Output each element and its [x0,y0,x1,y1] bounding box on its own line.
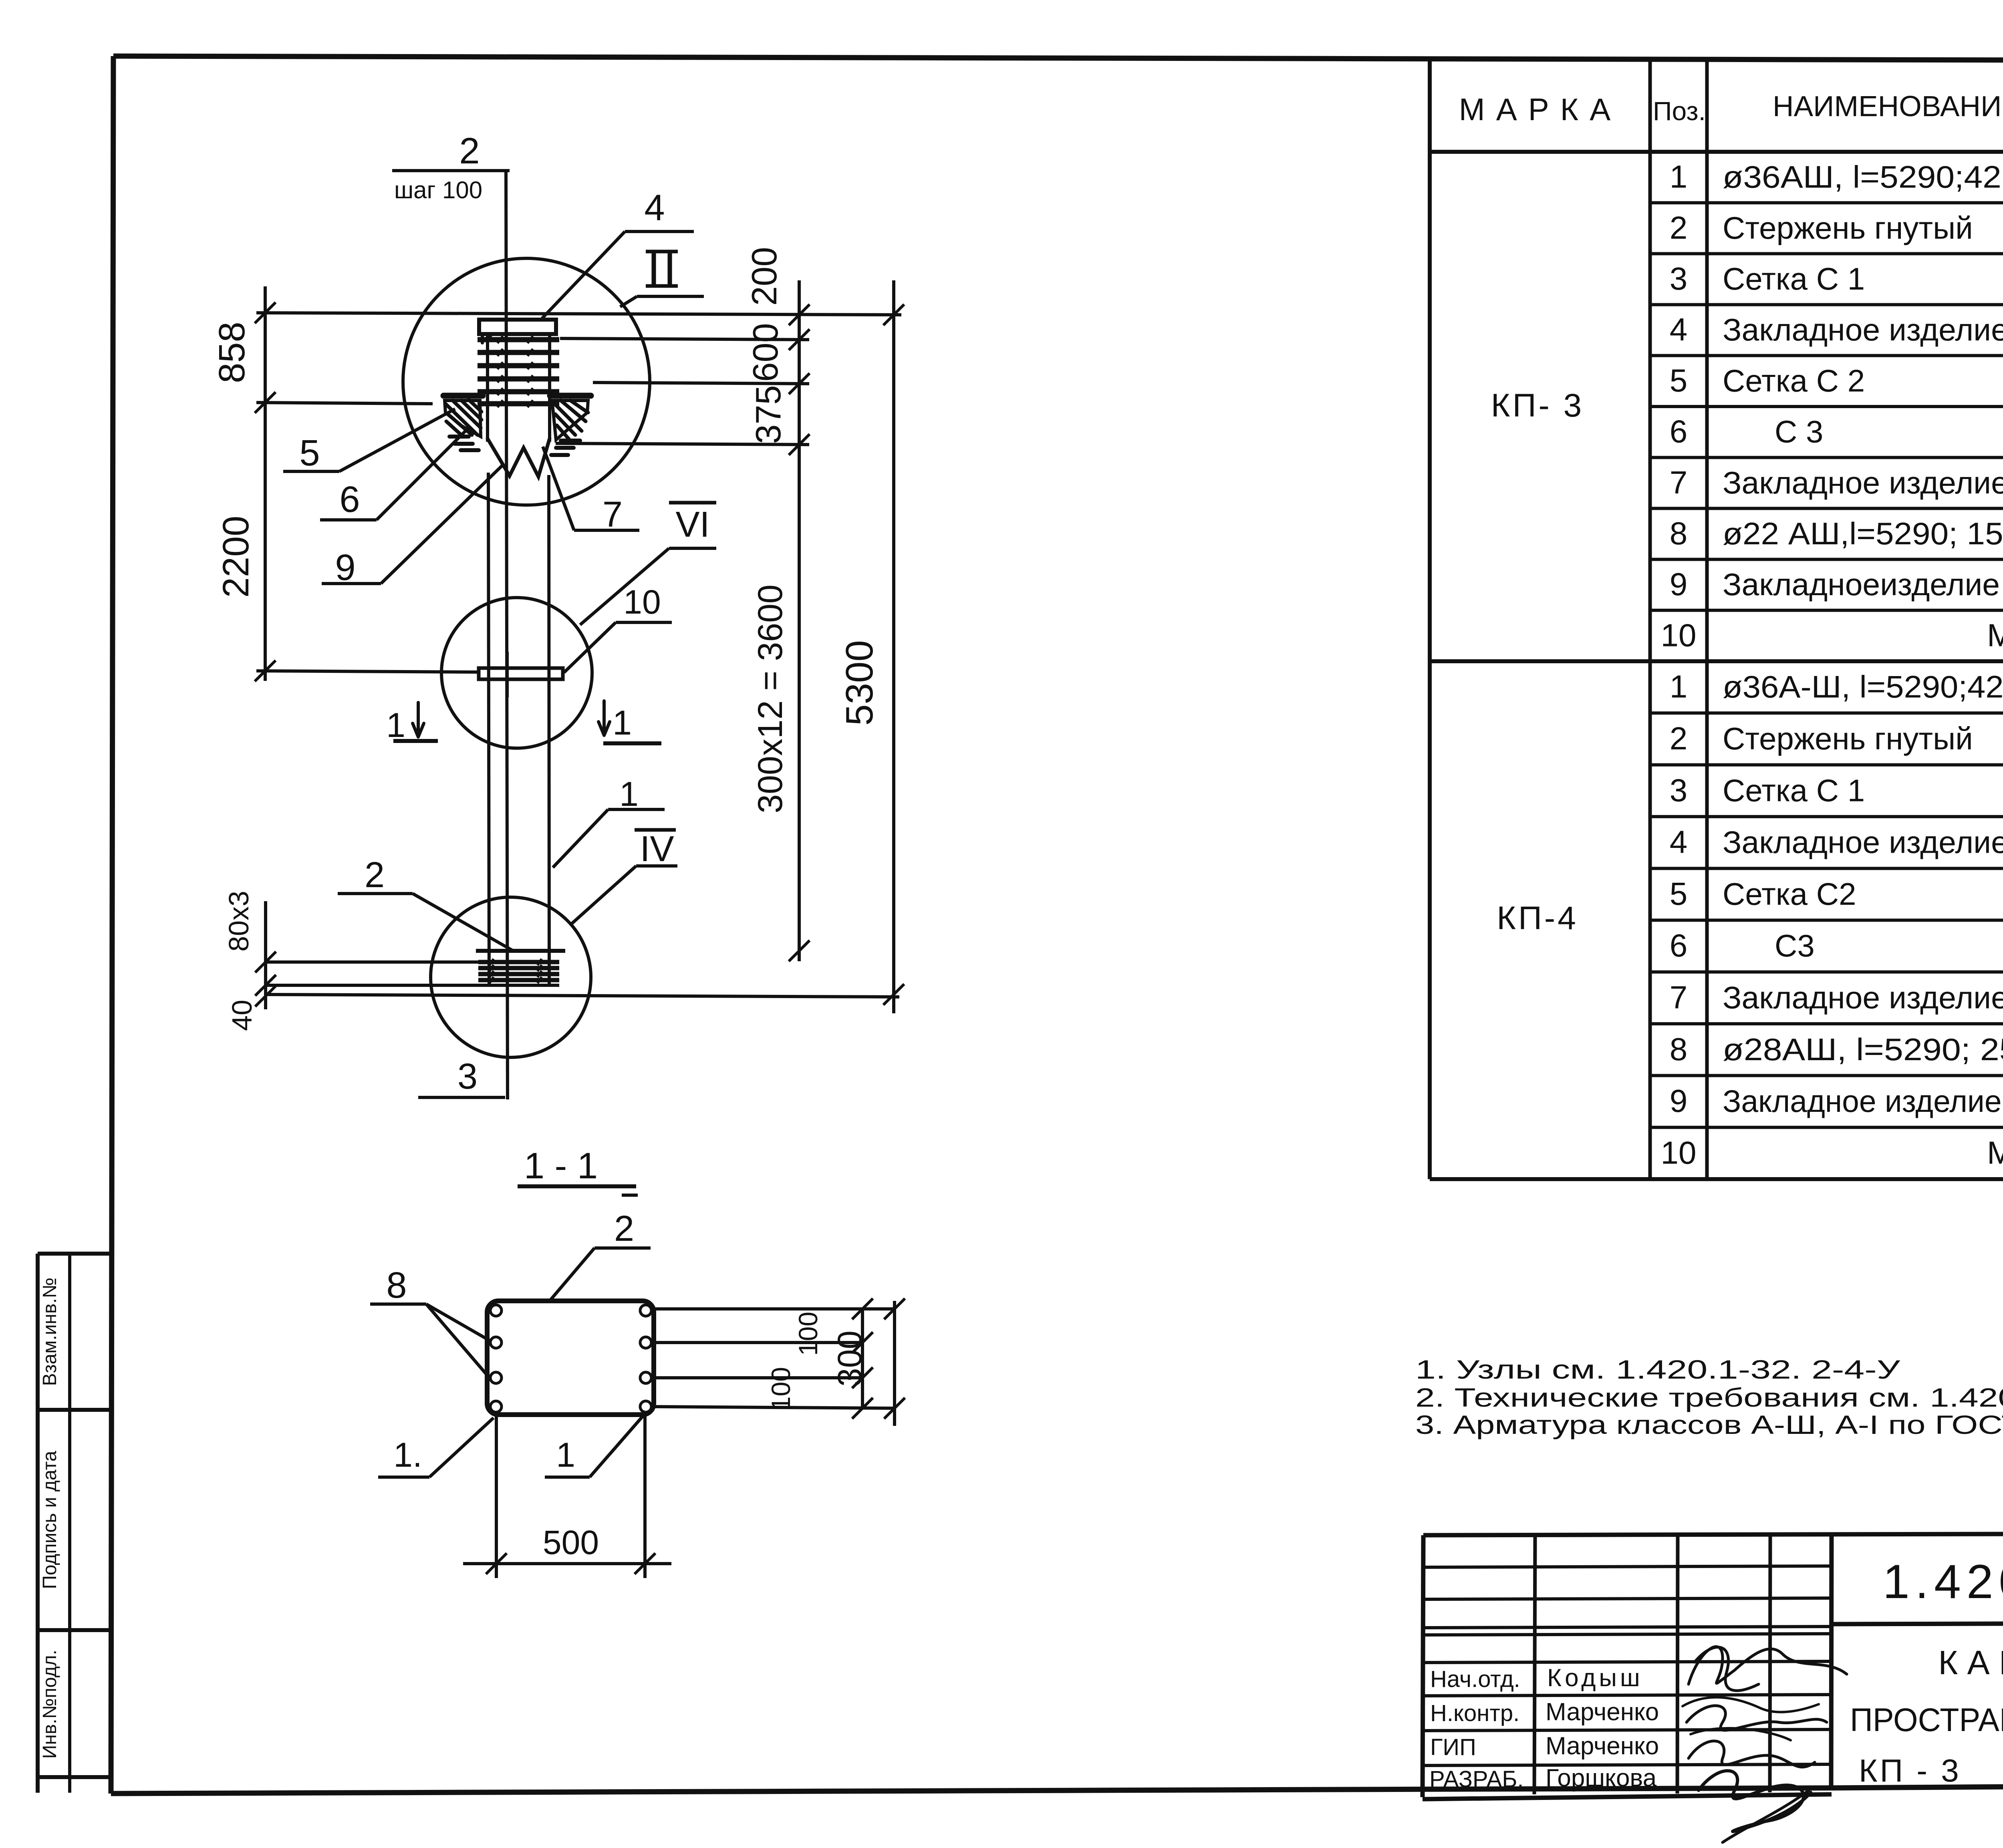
svg-text:2200: 2200 [216,516,256,598]
KP-3 row 6 divider line [1650,456,2003,459]
reference II underline [637,295,704,298]
KP-4 row 4 divider line [1650,867,2003,870]
dim line 100/100 vertical [861,1309,864,1408]
dim line 500 horizontal [463,1562,671,1565]
svg-text:300: 300 [831,1331,869,1387]
reference VI leader [580,548,669,625]
svg-text:10: 10 [1661,1135,1697,1170]
svg-text:Поз.: Поз. [1653,96,1706,126]
parts table header row line [1430,150,2003,154]
svg-text:10: 10 [1661,617,1697,653]
KP-4 row 8 divider line [1650,1074,2003,1077]
svg-text:858: 858 [212,322,252,383]
svg-text:40: 40 [226,1000,258,1031]
svg-text:4: 4 [644,187,665,228]
svg-text:7: 7 [1670,979,1688,1015]
svg-text:Н.контр.: Н.контр. [1430,1700,1519,1726]
svg-text:VI: VI [675,505,709,545]
svg-text:9: 9 [335,547,355,588]
svg-text:3: 3 [1670,261,1688,296]
KP-3 row 5 divider line [1650,405,2003,408]
svg-text:300х12 = 3600: 300х12 = 3600 [751,584,790,813]
svg-text:6: 6 [339,479,360,520]
svg-text:4: 4 [1670,824,1688,860]
svg-text:Взам.инв.№: Взам.инв.№ [39,1278,60,1386]
svg-text:3. Арматура классов А-Ш, А-I: 3. Арматура классов А-Ш, А-I по ГОСТ 578… [1415,1410,2003,1439]
svg-text:10: 10 [623,583,661,621]
svg-text:1: 1 [1670,669,1688,705]
svg-text:Стержень гнутый: Стержень гнутый [1723,721,1973,756]
sheet frame left border [111,56,113,1794]
svg-text:1: 1 [619,775,639,813]
rebar circles left side [490,1305,502,1412]
svg-text:2: 2 [1670,210,1688,246]
svg-text:ø36АШ, l=5290;42,35кг: ø36АШ, l=5290;42,35кг [1723,159,2003,195]
top plate left hook [482,334,490,343]
5300 ticks [883,304,904,325]
svg-text:600: 600 [746,323,785,382]
svg-text:шаг 100: шаг 100 [394,177,482,203]
svg-text:ø22 АШ,l=5290; 15,82кг: ø22 АШ,l=5290; 15,82кг [1723,516,2003,551]
svg-text:ПРОСТРАНСТВЕННЫЙ: ПРОСТРАНСТВЕННЫЙ [1850,1701,2003,1738]
svg-text:1 - 1: 1 - 1 [524,1145,598,1186]
parts table outer verticals [1430,60,2003,1179]
column top plate (закладное изделие) [479,320,556,334]
svg-text:Закладное изделиеМН1: Закладное изделиеМН1 [1723,825,2003,860]
svg-text:Сетка С 1: Сетка С 1 [1723,773,1865,808]
svg-text:С3: С3 [1723,928,1815,963]
title block left edge [1423,1535,1423,1797]
svg-text:КП - 3 , КП - 4: КП - 3 , КП - 4 [1859,1753,2003,1788]
KP-3 row 2 divider line [1650,252,2003,255]
svg-text:РАЗРАБ.: РАЗРАБ. [1429,1766,1524,1792]
sheet frame top border [113,56,2003,61]
column axis centerline [506,171,508,1099]
KP-3 row 3 divider line [1650,303,2003,306]
svg-text:К А Р К А С: К А Р К А С [1938,1644,2003,1681]
svg-text:Нач.отд.: Нач.отд. [1430,1666,1520,1692]
svg-text:3: 3 [1670,772,1688,808]
column trunk left edge upper [486,334,489,442]
weld mesh scribble left (pos.5) [443,393,483,399]
svg-text:1.420.1-32 .: 1.420.1-32 . [1883,1555,2003,1608]
svg-text:2. Технические требования см.: 2. Технические требования см. 1.420.1-32… [1415,1383,2003,1412]
svg-text:100: 100 [793,1312,823,1356]
svg-text:Горшкова: Горшкова [1546,1764,1657,1792]
svg-text:8: 8 [386,1265,407,1306]
svg-text:5: 5 [1670,876,1688,912]
column trunk left edge middle [488,473,489,985]
svg-text:Сетка С 2: Сетка С 2 [1723,363,1865,398]
svg-text:1: 1 [386,706,405,745]
extension line right level 600-top [560,338,809,340]
column trunk right edge middle [549,475,549,985]
signature squiggle 4 (разраб, long tail) [1699,1771,1811,1832]
svg-text:НАИМЕНОВАНИЕ: НАИМЕНОВАНИЕ [1773,91,2003,123]
svg-text:5: 5 [1670,362,1688,398]
weld mesh scribble right (pos.6) [550,393,591,399]
svg-text:6: 6 [1670,414,1688,449]
KP-3 row 4 divider line [1650,354,2003,357]
svg-text:Сетка С 1: Сетка С 1 [1723,261,1865,296]
svg-text:1. Узлы см. 1.420.1-32. 2-4-У: 1. Узлы см. 1.420.1-32. 2-4-У [1415,1355,1900,1384]
ticks 80x3 40 [255,952,276,972]
reference IV leader [571,866,636,924]
svg-text:1: 1 [556,1436,575,1474]
detail circle II [403,258,650,505]
detail circle IV bottom [431,897,591,1057]
reference IV roman with overline [635,828,676,832]
KP-3 row 7 divider line [1650,507,2003,510]
spiral coil lines below top plate [478,336,559,407]
right dim ticks [789,304,810,325]
title block bottom of approval table [1423,1794,1832,1799]
middle embed plate pos.10 [479,668,563,679]
extension line coil bottom left level [256,403,433,404]
svg-text:7: 7 [1670,465,1688,500]
svg-text:Кодыш: Кодыш [1547,1664,1643,1692]
svg-text:8: 8 [1670,1031,1688,1067]
svg-text:Закладное изделиеМН3: Закладное изделиеМН3 [1723,465,2003,500]
KP-4 row 3 divider line [1650,815,2003,818]
svg-text:КП- 3: КП- 3 [1491,387,1584,424]
KP-4 row 1 divider line [1650,711,2003,715]
svg-text:ГИП: ГИП [1430,1734,1476,1760]
svg-text:КП-4: КП-4 [1497,900,1578,936]
svg-text:375: 375 [748,385,788,444]
column trunk right edge upper [548,334,551,442]
KP-3 row 1 divider line [1650,201,2003,204]
signature squiggle 1 [1689,1647,1847,1684]
svg-text:2: 2 [459,131,480,171]
svg-text:МАРКА: МАРКА [1459,92,1622,127]
svg-text:МН6: МН6 [1987,1135,2003,1170]
svg-text:С 3: С 3 [1723,414,1823,449]
extension line right level 375-top [593,382,809,384]
svg-text:МН6: МН6 [1987,617,2003,653]
KP-4 row 6 divider line [1650,970,2003,974]
svg-text:3: 3 [457,1057,478,1097]
margin stamp box [38,1254,113,1793]
svg-text:5: 5 [299,433,320,473]
reference II leader to circle [620,296,637,307]
approval table row lines [1423,1566,1832,1765]
svg-text:ø28АШ, l=5290; 25,6кг: ø28АШ, l=5290; 25,6кг [1723,1032,2003,1067]
svg-text:Сетка С2: Сетка С2 [1723,876,1856,912]
svg-text:4: 4 [1670,312,1688,347]
detail reference II roman [646,252,678,286]
KP-4 row 9 divider line [1650,1126,2003,1129]
svg-text:2: 2 [365,855,385,895]
extension lines right of section [651,1307,895,1311]
parts table section divider KP-3/KP-4 [1430,659,2003,663]
svg-text:80х3: 80х3 [223,891,254,952]
document number cell line under 1.420.1-32 [1832,1622,2003,1624]
svg-text:Закладноеизделие МН4: Закладноеизделие МН4 [1723,567,2003,602]
svg-text:Закладное изделиеМН3: Закладное изделиеМН3 [1723,980,2003,1015]
KP-4 row 7 divider line [1650,1022,2003,1025]
extension line 2200 bottom to middle plate [256,671,479,672]
extension line 80x3 top [266,960,478,964]
rebar circles right side [640,1305,651,1412]
bottom anchor top line pos.2 target [476,949,565,953]
approval table verticals [1534,1534,1832,1794]
svg-text:9: 9 [1670,566,1688,602]
left dimension line vertical (858 / 2200) [264,286,267,681]
svg-text:IV: IV [640,829,674,869]
extension verticals for 500 dim [495,1415,498,1578]
title block outer top line [1423,1533,2003,1535]
svg-text:Стержень гнутый: Стержень гнутый [1723,210,1973,246]
KP-3 row 8 divider line [1650,558,2003,561]
bottom trunk end line [266,984,559,987]
extension line bottom 40 level [266,994,899,997]
reference VI roman with overline [669,501,716,505]
sheet frame bottom border [111,1788,1832,1794]
svg-text:100: 100 [766,1367,796,1411]
signature squiggle 3 [1689,1741,1815,1767]
svg-text:Закладное изделие МН4: Закладное изделие МН4 [1723,1083,2003,1119]
section mark 1 right [598,701,610,735]
svg-text:6: 6 [1670,928,1688,963]
svg-text:200: 200 [744,247,784,306]
svg-text:1: 1 [613,704,632,742]
dimension line 5300 vertical [892,280,895,1013]
svg-text:2: 2 [1670,721,1688,756]
axis continuation to label 3 [506,985,508,1097]
svg-text:9: 9 [1670,1083,1688,1119]
column break V zigzag [488,439,550,477]
KP-3 row 9 divider line [1650,609,2003,612]
extension line top plate level [256,313,901,315]
right dimension line vertical 200/600/375/3600 [798,280,801,961]
signature squiggle 2 [1687,1706,1827,1730]
section square column outline [487,1301,654,1415]
svg-text:Инв.№подл.: Инв.№подл. [39,1650,60,1759]
svg-text:Марченко: Марченко [1546,1732,1659,1760]
svg-text:Марченко: Марченко [1546,1698,1659,1726]
bottom anchor plate lines [478,959,559,983]
parts table bottom line [1430,1177,2003,1181]
label 2 underline with шаг 100 [392,169,510,172]
dim line 300 vertical [893,1301,896,1426]
dim ticks left [255,302,276,323]
extension line right level 375-bottom [556,443,809,445]
svg-text:1: 1 [1670,159,1688,195]
svg-text:5300: 5300 [838,640,881,726]
svg-text:2: 2 [614,1209,634,1249]
svg-text:500: 500 [543,1524,599,1561]
svg-text:ø36А-Ш, l=5290;42,35кг: ø36А-Ш, l=5290;42,35кг [1723,669,2003,705]
KP-4 row 5 divider line [1650,919,2003,922]
left bottom dimension vertical 80x3/40 [264,901,267,1009]
middle plate vertical centerline [506,652,509,697]
detail circle VI [441,598,592,748]
svg-text:1.: 1. [393,1436,422,1474]
svg-text:Подпись и дата: Подпись и дата [39,1451,60,1589]
KP-4 row 2 divider line [1650,763,2003,767]
svg-text:8: 8 [1670,515,1688,551]
svg-text:Закладное изделиеМН1: Закладное изделиеМН1 [1723,312,2003,347]
